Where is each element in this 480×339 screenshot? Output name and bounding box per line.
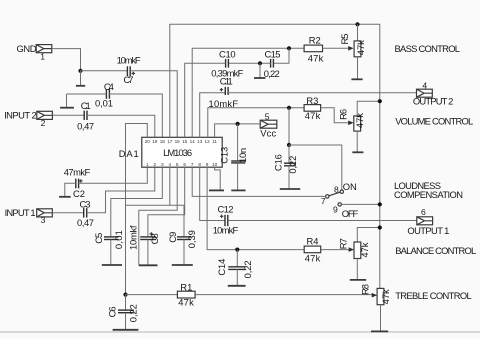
wiper arrow into R7 [349,247,354,252]
potentiometer R7 47k [338,228,380,280]
wire switch contact 9 to right bus [342,203,380,205]
connector X6 OUTPUT 1 [407,207,449,236]
svg-text:R8: R8 [360,284,371,295]
node Vcc C13 junction [236,122,240,126]
capacitor C13 10n [218,124,248,190]
svg-text:R2: R2 [309,35,321,46]
svg-text:DA1: DA1 [119,148,139,159]
wire pin12 to R3 row [208,108,304,138]
svg-text:15: 15 [182,139,188,144]
svg-text:3: 3 [41,215,46,225]
page separator line [0,331,480,333]
capacitor C9 0,39 [167,230,197,265]
resistor R1 47k [177,282,195,308]
node R7 to bus junction [378,225,382,229]
wire pin14 to R2 row [192,48,304,137]
svg-text:C10: C10 [219,49,236,60]
svg-text:C15: C15 [265,49,281,60]
wiper arrow into R8 [372,293,377,298]
svg-text:47k: 47k [305,253,321,264]
wire IC pin1 was drawn; pin20 wire to long left vertical [126,124,148,295]
wire R3 to R6 wiper [321,108,350,123]
wire C3 to IC pin 2 [87,167,155,213]
svg-text:0,22: 0,22 [127,304,138,322]
svg-text:8: 8 [198,162,201,167]
svg-text:9: 9 [333,205,338,215]
ground under GND junction [76,85,85,87]
capacitor C15 0,22 [264,49,281,79]
svg-text:12: 12 [204,139,210,144]
svg-text:47k: 47k [380,289,391,304]
svg-text:0,22: 0,22 [242,260,253,278]
svg-text:OUTPUT 1: OUTPUT 1 [407,225,449,236]
node C10 C15 ground junction [258,61,262,65]
svg-text:R6: R6 [338,109,349,120]
wire C15 up to junction [273,48,289,63]
pin numbers top row 20..11 [145,139,218,144]
wire IC pin10 to ground [215,167,221,190]
wire pin11 to Vcc [215,124,261,137]
wire pin13 to C11 [200,93,226,138]
svg-text:0,47: 0,47 [77,217,94,228]
svg-text:20: 20 [145,139,151,144]
wiper arrow into R6 [348,121,353,126]
wire C7 to IC pin 16 [130,71,177,138]
switch SA1 loudness [321,181,359,219]
node OUTPUT2 R6 junction on right bus [378,99,382,103]
capacitor C14 0,22 [216,250,253,286]
svg-text:C1: C1 [81,100,91,111]
svg-text:Vcc: Vcc [260,128,276,139]
wire C10 to IC pin 15 [185,63,226,137]
svg-text:C11: C11 [220,76,233,87]
svg-text:19: 19 [152,139,158,144]
capacitor C3 0,47 [77,199,94,229]
svg-text:13: 13 [197,139,203,144]
svg-text:C6: C6 [106,306,117,317]
pin numbers bottom row 1..10 [146,162,218,167]
potentiometer R5 47k [339,24,366,79]
connector X2 INPUT 2 [4,109,52,128]
ground for C4 wire [60,94,74,108]
potentiometer R6 47k [338,101,380,152]
ground under C2 [59,196,71,198]
svg-text:C5: C5 [93,233,104,244]
svg-text:7: 7 [191,162,194,167]
svg-text:R5: R5 [339,34,350,45]
svg-text:GND: GND [17,43,37,54]
capacitor C2 47mkF [64,167,91,200]
op-amp IC DA1 LM1036 [119,137,223,167]
svg-text:BALANCE CONTROL: BALANCE CONTROL [395,245,476,256]
svg-text:OFF: OFF [342,208,359,219]
svg-text:C9: C9 [167,232,178,243]
wire R4 to R7 wiper [321,249,350,251]
wire C1 to IC pin 19 [87,115,155,137]
svg-text:47mkF: 47mkF [64,167,91,178]
capacitor C5 0,01 [93,230,124,265]
wire IC pin9 down to R4 row [207,167,304,249]
svg-text:C13: C13 [218,147,229,164]
svg-text:10mkF: 10mkF [213,225,239,236]
svg-text:2: 2 [153,162,156,167]
svg-text:47k: 47k [354,113,365,128]
node R1 C6 junction [123,293,127,297]
svg-text:2: 2 [41,118,46,128]
svg-text:10: 10 [212,162,218,167]
svg-text:10mkF: 10mkF [209,98,239,109]
wire R1 to R8 wiper [195,294,373,296]
wire IC pin7 to switch contact 7 [192,167,325,196]
svg-text:4: 4 [168,162,171,167]
svg-text:47k: 47k [359,242,370,257]
connector X5 Vcc [260,111,277,138]
svg-text:47k: 47k [308,53,324,64]
connector X1 GND [17,43,52,62]
svg-text:C16: C16 [273,154,284,171]
wire junction to R1 [126,294,178,296]
svg-text:0,01: 0,01 [113,230,124,249]
capacitor C11 10mkF [220,76,233,95]
svg-text:10n: 10n [237,148,248,163]
node bus to R5 [355,22,359,26]
svg-text:7: 7 [321,196,326,206]
svg-text:INPUT 2: INPUT 2 [4,109,37,120]
wire IC pin5 to ground at C8 [139,167,177,265]
svg-text:3: 3 [161,162,164,167]
wire GND connector to junction [52,49,81,71]
svg-text:47k: 47k [178,297,194,308]
svg-text:LM1036: LM1036 [163,147,192,158]
svg-text:0,01: 0,01 [95,98,113,109]
ground under pin10 [209,189,224,191]
wire C2 to IC pin 1 [79,167,148,183]
svg-text:47k: 47k [305,110,321,121]
svg-text:C14: C14 [216,259,227,276]
connector X3 INPUT 1 [5,207,53,225]
svg-text:C8: C8 [149,233,160,244]
svg-text:ON: ON [343,181,357,192]
svg-text:17: 17 [167,139,173,144]
node switch to bus junction [378,202,382,206]
svg-text:1: 1 [40,51,45,61]
wire C11 to OUTPUT2 connector [228,92,416,94]
svg-text:0,47: 0,47 [77,121,94,132]
wire IC pin4 to C9 [126,167,185,237]
svg-text:1: 1 [146,162,149,167]
svg-text:R7: R7 [338,238,349,249]
resistor R4 47k [304,235,321,263]
svg-text:C2: C2 [73,188,85,199]
node GND junction [78,69,82,73]
svg-text:47k: 47k [355,40,366,55]
svg-text:0,22: 0,22 [264,68,280,79]
node R2 C15 junction [287,46,291,50]
svg-text:14: 14 [190,139,196,144]
svg-text:11: 11 [212,139,217,144]
wire C12 to OUTPUT1 connector [228,220,417,222]
resistor R3 47k [304,95,321,121]
svg-text:0,22: 0,22 [287,156,298,174]
wire IC pin6 to C8 [148,167,185,237]
wire C15 to C10 [228,62,270,64]
wire junction down to ground [80,71,82,86]
capacitor C6 0,22 [106,295,138,330]
capacitor C7 10mkF [117,54,141,85]
svg-text:6: 6 [421,207,426,217]
ground under C10 C15 junction [254,77,265,79]
wire junction down to ground [259,63,261,77]
svg-text:BASS CONTROL: BASS CONTROL [395,43,461,54]
svg-text:TREBLE CONTROL: TREBLE CONTROL [395,290,472,301]
svg-text:INPUT 1: INPUT 1 [5,207,36,218]
svg-text:6: 6 [183,162,186,167]
connector X4 OUTPUT 2 [413,80,454,106]
capacitor C8 10mkf [127,225,160,265]
wire C4 to IC pin 18 [109,94,162,137]
node C16 switch junction [287,143,291,147]
wire IC pin8 down to C12 [200,167,225,220]
wire INPUT2 to C1 [52,114,84,116]
wire R2 to R5 wiper [323,47,350,49]
wire ground to C4 [67,93,107,95]
wire junction to switch contact 8 [289,145,342,190]
wire IC pin3 to C5 [111,167,163,237]
svg-text:18: 18 [160,139,166,144]
capacitor C10 0,39mkF [211,49,243,79]
svg-text:5: 5 [176,162,179,167]
svg-text:0,39: 0,39 [186,230,197,248]
wire junction to C7 [81,70,128,72]
wire R3 junction down to C16 junction [288,108,290,145]
svg-text:10mkf: 10mkf [127,225,138,250]
svg-text:16: 16 [175,139,181,144]
wiper arrow into R5 [348,46,353,51]
svg-text:VOLUME CONTROL: VOLUME CONTROL [395,116,473,127]
resistor R2 47k [304,35,323,64]
svg-text:OUTPUT 2: OUTPUT 2 [413,96,454,107]
capacitor C16 0,22 [273,145,301,189]
svg-text:COMPENSATION: COMPENSATION [394,189,463,200]
capacitor C12 10mkF [213,203,239,235]
capacitor C1 0,47 [77,100,94,132]
svg-text:C7: C7 [124,74,134,85]
svg-text:C12: C12 [218,203,234,214]
capacitor C4 0,01 [95,81,114,109]
potentiometer R8 47k [360,284,392,331]
wire top bus pin17 to right side [170,24,380,288]
svg-text:10mkF: 10mkF [117,54,141,65]
svg-text:9: 9 [206,162,209,167]
svg-text:C3: C3 [80,199,91,210]
node R3 C16 junction [287,106,291,110]
node C14 junction [235,248,239,252]
svg-text:R4: R4 [307,235,319,246]
wire C2 left to ground [65,183,76,196]
wire INPUT1 to C3 [52,212,83,214]
